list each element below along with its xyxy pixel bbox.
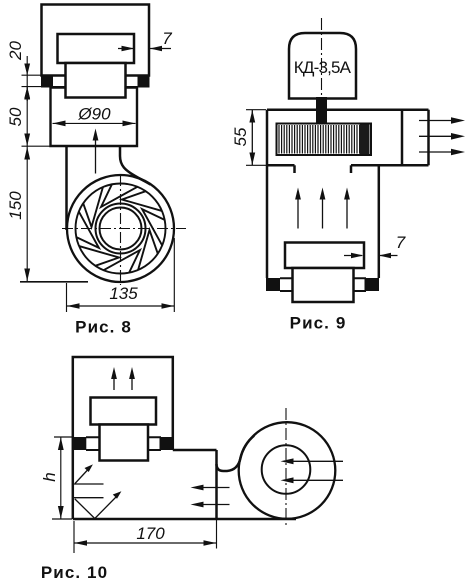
duct top right segment	[173, 449, 217, 452]
right mount block fig9	[365, 278, 380, 291]
arrow 55 top	[249, 110, 255, 123]
fan medium rect (motor body)	[58, 34, 135, 63]
fan narrow rect fig9	[293, 268, 354, 302]
duct right wall	[215, 450, 218, 519]
fan narrow rect (motor lower)	[66, 63, 126, 98]
arrowheads fig8	[24, 46, 174, 309]
fan medium rect fig10	[91, 398, 157, 425]
dim line 150	[26, 147, 28, 282]
vertical centerline	[120, 175, 122, 285]
volute left arrowheads	[281, 458, 294, 464]
left mount block	[41, 75, 53, 88]
up arrowheads x2 fig10	[111, 367, 117, 379]
dimensions fig8	[22, 49, 175, 313]
arrow 150 bottom	[24, 269, 30, 282]
impeller blades fig8	[76, 184, 164, 272]
texts fig9	[231, 58, 406, 333]
svg-text:Рис. 10: Рис. 10	[41, 563, 108, 582]
svg-text:20: 20	[6, 41, 25, 61]
svg-text:Ø90: Ø90	[77, 105, 111, 124]
black mount squares fig9	[266, 278, 379, 291]
black mount squares fig8	[41, 75, 150, 88]
arrow 135 right	[162, 303, 175, 309]
svg-text:Рис. 8: Рис. 8	[75, 318, 132, 337]
left ledge lines	[53, 76, 67, 88]
fan narrow rect fig10	[100, 425, 149, 461]
svg-text:7: 7	[162, 29, 172, 48]
dim line d90	[53, 122, 136, 124]
duct bottom	[73, 518, 296, 521]
duct left arrowheads	[191, 485, 204, 491]
arrow d90 right	[123, 121, 136, 127]
V baffle left stroke	[75, 499, 95, 519]
flow arrows fig9	[246, 110, 455, 256]
fan medium rect fig9	[285, 243, 364, 269]
left mount block fig10	[73, 437, 87, 450]
up arrow tails x2	[114, 375, 132, 390]
arrow 50 bottom	[24, 134, 30, 147]
diag arrowhead 2	[113, 491, 122, 498]
finned heatsink block	[277, 124, 372, 156]
right arrowheads x3 fig9	[451, 117, 465, 124]
bottom tangent line	[20, 281, 88, 283]
ledge lines fig10	[86, 437, 161, 450]
baffle lines	[74, 484, 104, 498]
right mount block fig10	[160, 437, 173, 450]
flow arrow tail fig8	[95, 138, 97, 174]
inlet ring outer circle	[96, 204, 146, 254]
arrow h bottom	[58, 506, 64, 519]
inlet ring inner circle	[100, 208, 142, 250]
chamber floor right segment	[351, 164, 429, 167]
lower chamber right wall	[378, 165, 381, 278]
ext line wide-rect bottom	[22, 145, 51, 147]
arrow 170 right	[204, 540, 217, 546]
duct left wall	[72, 437, 75, 519]
svg-text:55: 55	[231, 127, 250, 146]
centerline fig10 volute	[285, 408, 287, 527]
dim 55 line	[251, 110, 253, 165]
volute outer circle	[67, 175, 174, 282]
flow arrow up (inlet)	[93, 129, 99, 141]
left mount block fig9	[266, 278, 280, 291]
outlet partition	[401, 110, 404, 166]
dimensions fig10	[52, 437, 217, 553]
S-curve to volute	[217, 436, 255, 471]
svg-text:170: 170	[136, 524, 165, 543]
dim 135 ext left	[66, 283, 68, 312]
centerlines fig8	[62, 175, 186, 285]
arrow 55 bottom	[249, 153, 255, 166]
horizontal centerline	[62, 228, 186, 230]
arrow d90 left	[53, 121, 66, 127]
dim line 50	[26, 87, 28, 146]
texts fig8	[6, 29, 172, 337]
h dim line	[60, 437, 62, 518]
volute outer circle fig10	[239, 422, 336, 519]
heatsink dark right end	[360, 125, 370, 155]
dim line 135	[67, 305, 174, 307]
170 dim line	[74, 542, 216, 544]
dim 55 ext lines	[246, 110, 266, 166]
arrow 7 right-pointing fig9	[351, 253, 364, 259]
flow arrows fig10	[74, 375, 343, 519]
wide rect (scroll inlet box)	[51, 88, 138, 147]
impeller outer circle	[76, 184, 166, 274]
vent tick right	[350, 165, 353, 173]
duct right wall + tongue curve	[120, 146, 151, 185]
dim 7 lines	[118, 48, 171, 50]
svg-text:50: 50	[6, 107, 25, 126]
svg-text:135: 135	[109, 284, 138, 303]
arrow 7 left-pointing	[150, 46, 162, 52]
main body top	[267, 108, 429, 111]
svg-text:h: h	[40, 472, 59, 481]
h ext bottom	[52, 518, 72, 520]
upper fan box	[73, 357, 173, 450]
170 ext right	[216, 519, 218, 549]
lamp centerline fig9	[321, 18, 323, 97]
arrow 20 bottom	[24, 87, 30, 99]
lamp dome KD-3.5A	[289, 33, 356, 99]
right ledge lines	[125, 76, 138, 88]
dim 7 fig9 lines	[344, 255, 398, 257]
chamber floor left segment	[267, 164, 295, 167]
diag arrowhead 1	[85, 464, 93, 472]
duct left wall	[65, 146, 68, 230]
texts fig10	[40, 472, 165, 582]
arrow 20 top	[24, 64, 30, 76]
arrow h top	[58, 437, 64, 450]
arrow 150 top	[24, 147, 30, 160]
ledge lines fig9	[280, 278, 366, 291]
arrow 135 left	[67, 303, 80, 309]
body left wall	[266, 110, 269, 278]
outlet box right wall	[427, 110, 430, 166]
up arrow tails x3	[298, 196, 347, 229]
volute inner circle fig10	[262, 445, 311, 494]
svg-text:7: 7	[396, 233, 406, 252]
svg-text:150: 150	[6, 191, 25, 220]
right arrow tails x3	[419, 121, 455, 153]
ext lines 20/50	[22, 75, 42, 86]
right mount block	[138, 75, 150, 88]
dim line 20 (arrows outside)	[26, 56, 28, 101]
arrow 170 left	[74, 540, 87, 546]
arrow 7 left-pointing fig9	[379, 253, 391, 259]
diag arrow 1	[75, 470, 88, 484]
arrow 50 top	[24, 87, 30, 100]
heatsink fins fig9	[279, 125, 367, 154]
h ext top	[54, 436, 72, 438]
arrow 7 right-pointing	[122, 46, 135, 52]
fan outer housing top rect	[42, 5, 150, 76]
dim 135 ext right	[173, 238, 175, 312]
vent tick left	[293, 165, 296, 173]
lamp stem fig9	[316, 97, 327, 124]
V baffle arrow stroke	[95, 497, 117, 519]
170 ext left	[73, 521, 75, 553]
duct left arrows tails	[200, 488, 230, 505]
svg-text:Рис. 9: Рис. 9	[290, 314, 347, 333]
svg-text:КД-3,5А: КД-3,5А	[294, 58, 352, 77]
volute left arrows tails	[290, 461, 343, 480]
black mount squares fig10	[73, 437, 173, 450]
up arrowheads x3 fig9	[295, 188, 301, 200]
